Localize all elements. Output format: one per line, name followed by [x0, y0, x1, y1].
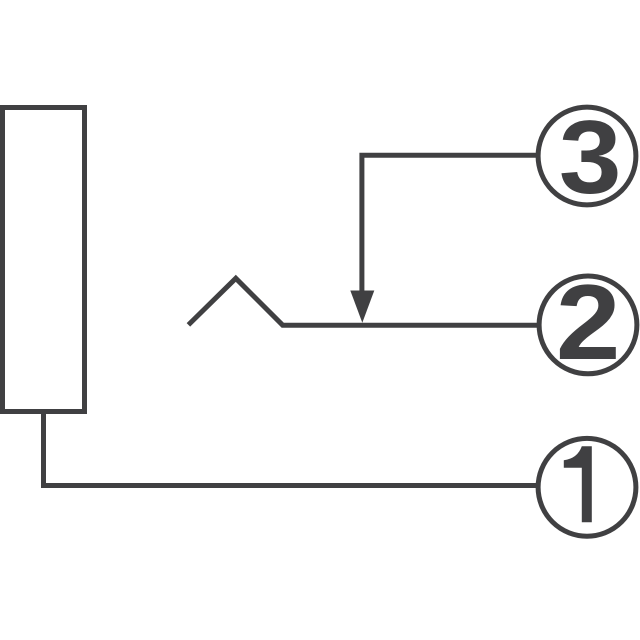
wire pin 1 (from body bottom to node 1): [44, 412, 538, 486]
arrowhead (pointing to switch contact): [350, 291, 374, 323]
pin circle 2: [539, 276, 637, 374]
pin circle 3: [538, 107, 636, 205]
pin circle 1: [538, 438, 636, 536]
connector body J1 (jack sleeve rectangle): [3, 108, 85, 412]
svg-text:3: 3: [559, 99, 622, 215]
switch contact (tip spring) and wire to node 2: [188, 278, 537, 325]
svg-text:2: 2: [556, 263, 621, 382]
pin label 1 (custom glyph: flag + stem, no foot): [564, 446, 592, 522]
wire pin 3 and arrow shaft: [362, 155, 537, 292]
